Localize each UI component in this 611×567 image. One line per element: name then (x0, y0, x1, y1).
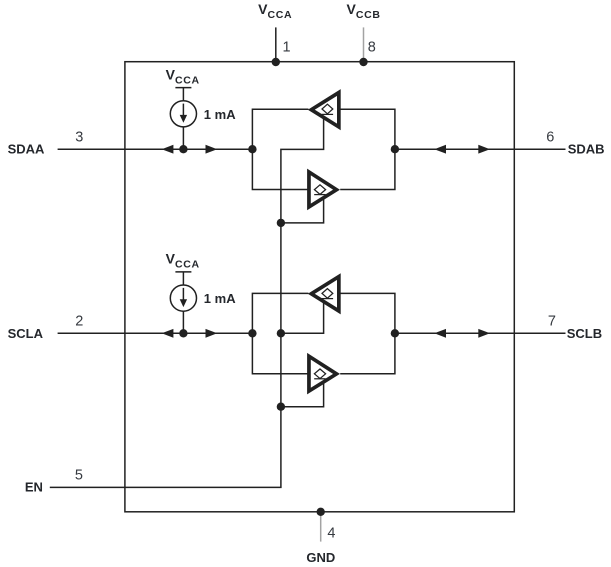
buffer B2 (right-pointing, SCL A-to-B) (309, 356, 337, 391)
wire SDAB output (395, 148, 566, 150)
node enable tap B2 junction (277, 403, 285, 411)
wire SDAA input (58, 148, 253, 150)
wire ch1 buffer loop right (340, 109, 395, 189)
wire I2 bar to circle (182, 272, 184, 285)
svg-text:SDAB: SDAB (568, 142, 605, 157)
arrow SCLA left (162, 329, 174, 338)
wire enable tap buffer B2 (281, 382, 324, 407)
wire pin8 VCCB stub (gray) (363, 27, 365, 62)
current source I2 arrow (183, 288, 185, 301)
node GND junction (317, 508, 325, 516)
svg-text:VCCB: VCCB (347, 1, 381, 21)
wire ch2 buffer loop left (252, 293, 308, 373)
wire I1 bar to circle (182, 88, 184, 101)
svg-text:6: 6 (546, 129, 554, 145)
buffer A1 (left-pointing, SDA B-to-A) (311, 93, 339, 127)
node I2-SCLA junction (179, 329, 187, 337)
buffer A2 (right-pointing, SDA A-to-B) (309, 172, 337, 207)
svg-text:1 mA: 1 mA (204, 107, 236, 122)
node I1-SDAA junction (179, 145, 187, 153)
arrow SCLB left (434, 329, 446, 338)
node enable tap B1 junction (277, 329, 285, 337)
node SCLA buffers junction (248, 329, 256, 337)
current source I1 circle (170, 101, 196, 127)
node SDAA buffers junction (248, 145, 256, 153)
current source I1 top bar (175, 87, 191, 89)
svg-text:4: 4 (327, 526, 335, 542)
svg-text:VCCA: VCCA (166, 251, 200, 271)
wire SCLB output (395, 332, 566, 334)
node SDAB buffers junction (391, 145, 399, 153)
arrow SCLB right (478, 329, 490, 338)
node pin8 junction (359, 58, 367, 66)
svg-text:7: 7 (548, 314, 556, 330)
wire pin1 VCCA stub (275, 27, 277, 62)
arrow SDAB right (478, 145, 490, 154)
node pin1 junction (272, 58, 280, 66)
svg-text:EN: EN (25, 479, 43, 494)
svg-text:VCCA: VCCA (166, 66, 200, 86)
current source I2 top bar (175, 271, 191, 273)
wire ch2 buffer loop right (340, 293, 395, 373)
arrow SDAA right (206, 145, 218, 154)
svg-text:5: 5 (75, 467, 83, 483)
svg-text:1: 1 (283, 39, 291, 55)
svg-text:8: 8 (368, 39, 376, 55)
svg-text:SDAA: SDAA (8, 142, 45, 157)
current source I1 arrow (183, 104, 185, 117)
wire ch1 buffer loop left (252, 109, 308, 189)
current source I2 circle (170, 285, 196, 311)
svg-text:1 mA: 1 mA (204, 291, 236, 306)
wire GND stub (gray) (320, 512, 322, 542)
IC boundary box (125, 62, 514, 512)
svg-text:VCCA: VCCA (258, 1, 292, 21)
wire enable tap buffer B1 (281, 302, 324, 333)
node SCLB buffers junction (391, 329, 399, 337)
wire I2 to SCLA (182, 311, 184, 333)
svg-text:2: 2 (75, 314, 83, 330)
wire I1 to SDAA (182, 127, 184, 149)
wire SCLA input (58, 332, 253, 334)
svg-text:GND: GND (306, 550, 335, 565)
buffer B1 (left-pointing, SCL B-to-A) (311, 277, 339, 311)
wire enable chain from buffer A1 down to EN pin (50, 118, 324, 487)
arrow SDAA left (162, 145, 174, 154)
arrow SDAB left (434, 145, 446, 154)
svg-text:3: 3 (75, 129, 83, 145)
svg-text:SCLB: SCLB (567, 326, 602, 341)
arrow SCLA right (206, 329, 218, 338)
wire enable tap buffer A2 (281, 198, 324, 223)
node enable tap A2 junction (277, 219, 285, 227)
svg-text:SCLA: SCLA (8, 326, 44, 341)
